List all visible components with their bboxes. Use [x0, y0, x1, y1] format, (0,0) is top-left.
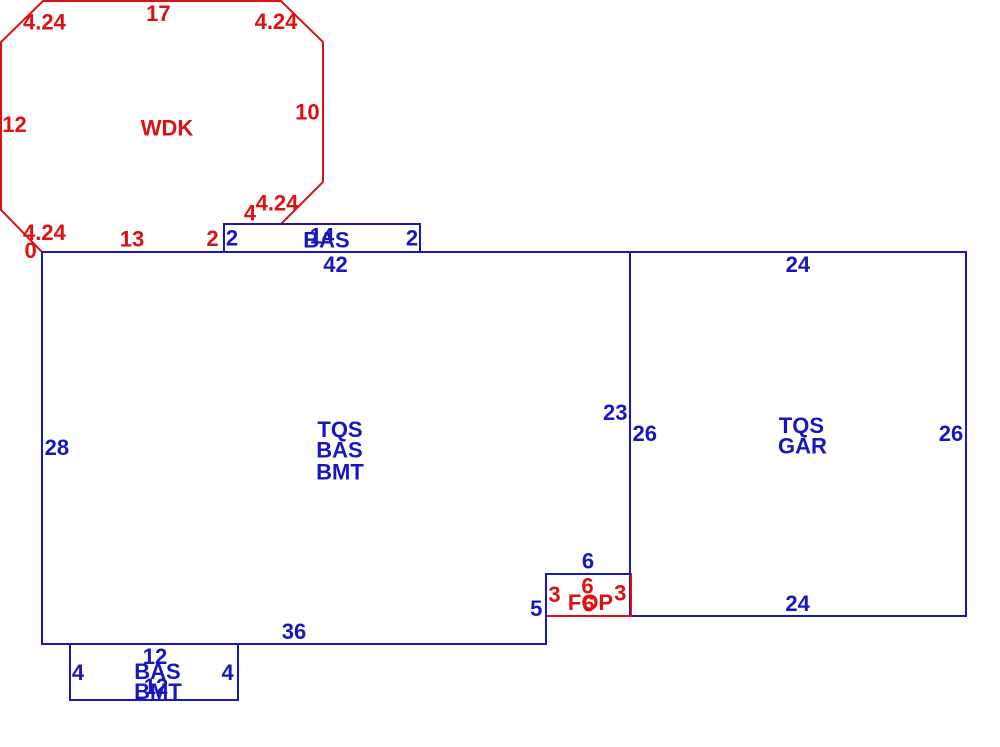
svg-text:17: 17 [146, 1, 170, 26]
garage outline [630, 252, 966, 616]
svg-text:26: 26 [633, 421, 657, 446]
svg-text:28: 28 [45, 435, 69, 460]
svg-text:4.24: 4.24 [23, 10, 67, 35]
svg-text:12: 12 [2, 112, 26, 137]
svg-text:2: 2 [226, 226, 238, 251]
svg-text:5: 5 [530, 596, 542, 621]
svg-text:4: 4 [72, 660, 85, 685]
svg-text:13: 13 [120, 226, 144, 251]
svg-text:WDK: WDK [141, 116, 194, 141]
svg-text:36: 36 [282, 619, 306, 644]
basement BMT outline [70, 644, 238, 700]
svg-text:4: 4 [244, 201, 257, 226]
svg-text:6: 6 [582, 592, 594, 617]
main house outline [42, 252, 630, 644]
svg-text:2: 2 [406, 226, 418, 251]
svg-text:42: 42 [323, 252, 347, 277]
svg-text:2: 2 [206, 226, 218, 251]
svg-text:23: 23 [603, 400, 627, 425]
porch BAS strip outline [224, 224, 420, 252]
svg-text:4: 4 [221, 660, 234, 685]
svg-text:24: 24 [785, 591, 810, 616]
svg-text:3: 3 [614, 581, 626, 606]
svg-text:BMT: BMT [316, 460, 364, 485]
porch FOP outline [546, 574, 631, 616]
svg-text:0: 0 [24, 238, 36, 263]
deck WDK outline [1, 1, 323, 252]
svg-text:BAS: BAS [303, 228, 349, 253]
svg-text:4.24: 4.24 [256, 191, 300, 216]
svg-text:10: 10 [295, 100, 319, 125]
svg-text:BMT: BMT [134, 679, 182, 704]
svg-text:26: 26 [939, 421, 963, 446]
svg-text:3: 3 [548, 582, 560, 607]
svg-text:6: 6 [582, 549, 594, 574]
svg-text:4.24: 4.24 [255, 9, 299, 34]
svg-text:24: 24 [786, 252, 811, 277]
svg-text:GAR: GAR [778, 434, 827, 459]
